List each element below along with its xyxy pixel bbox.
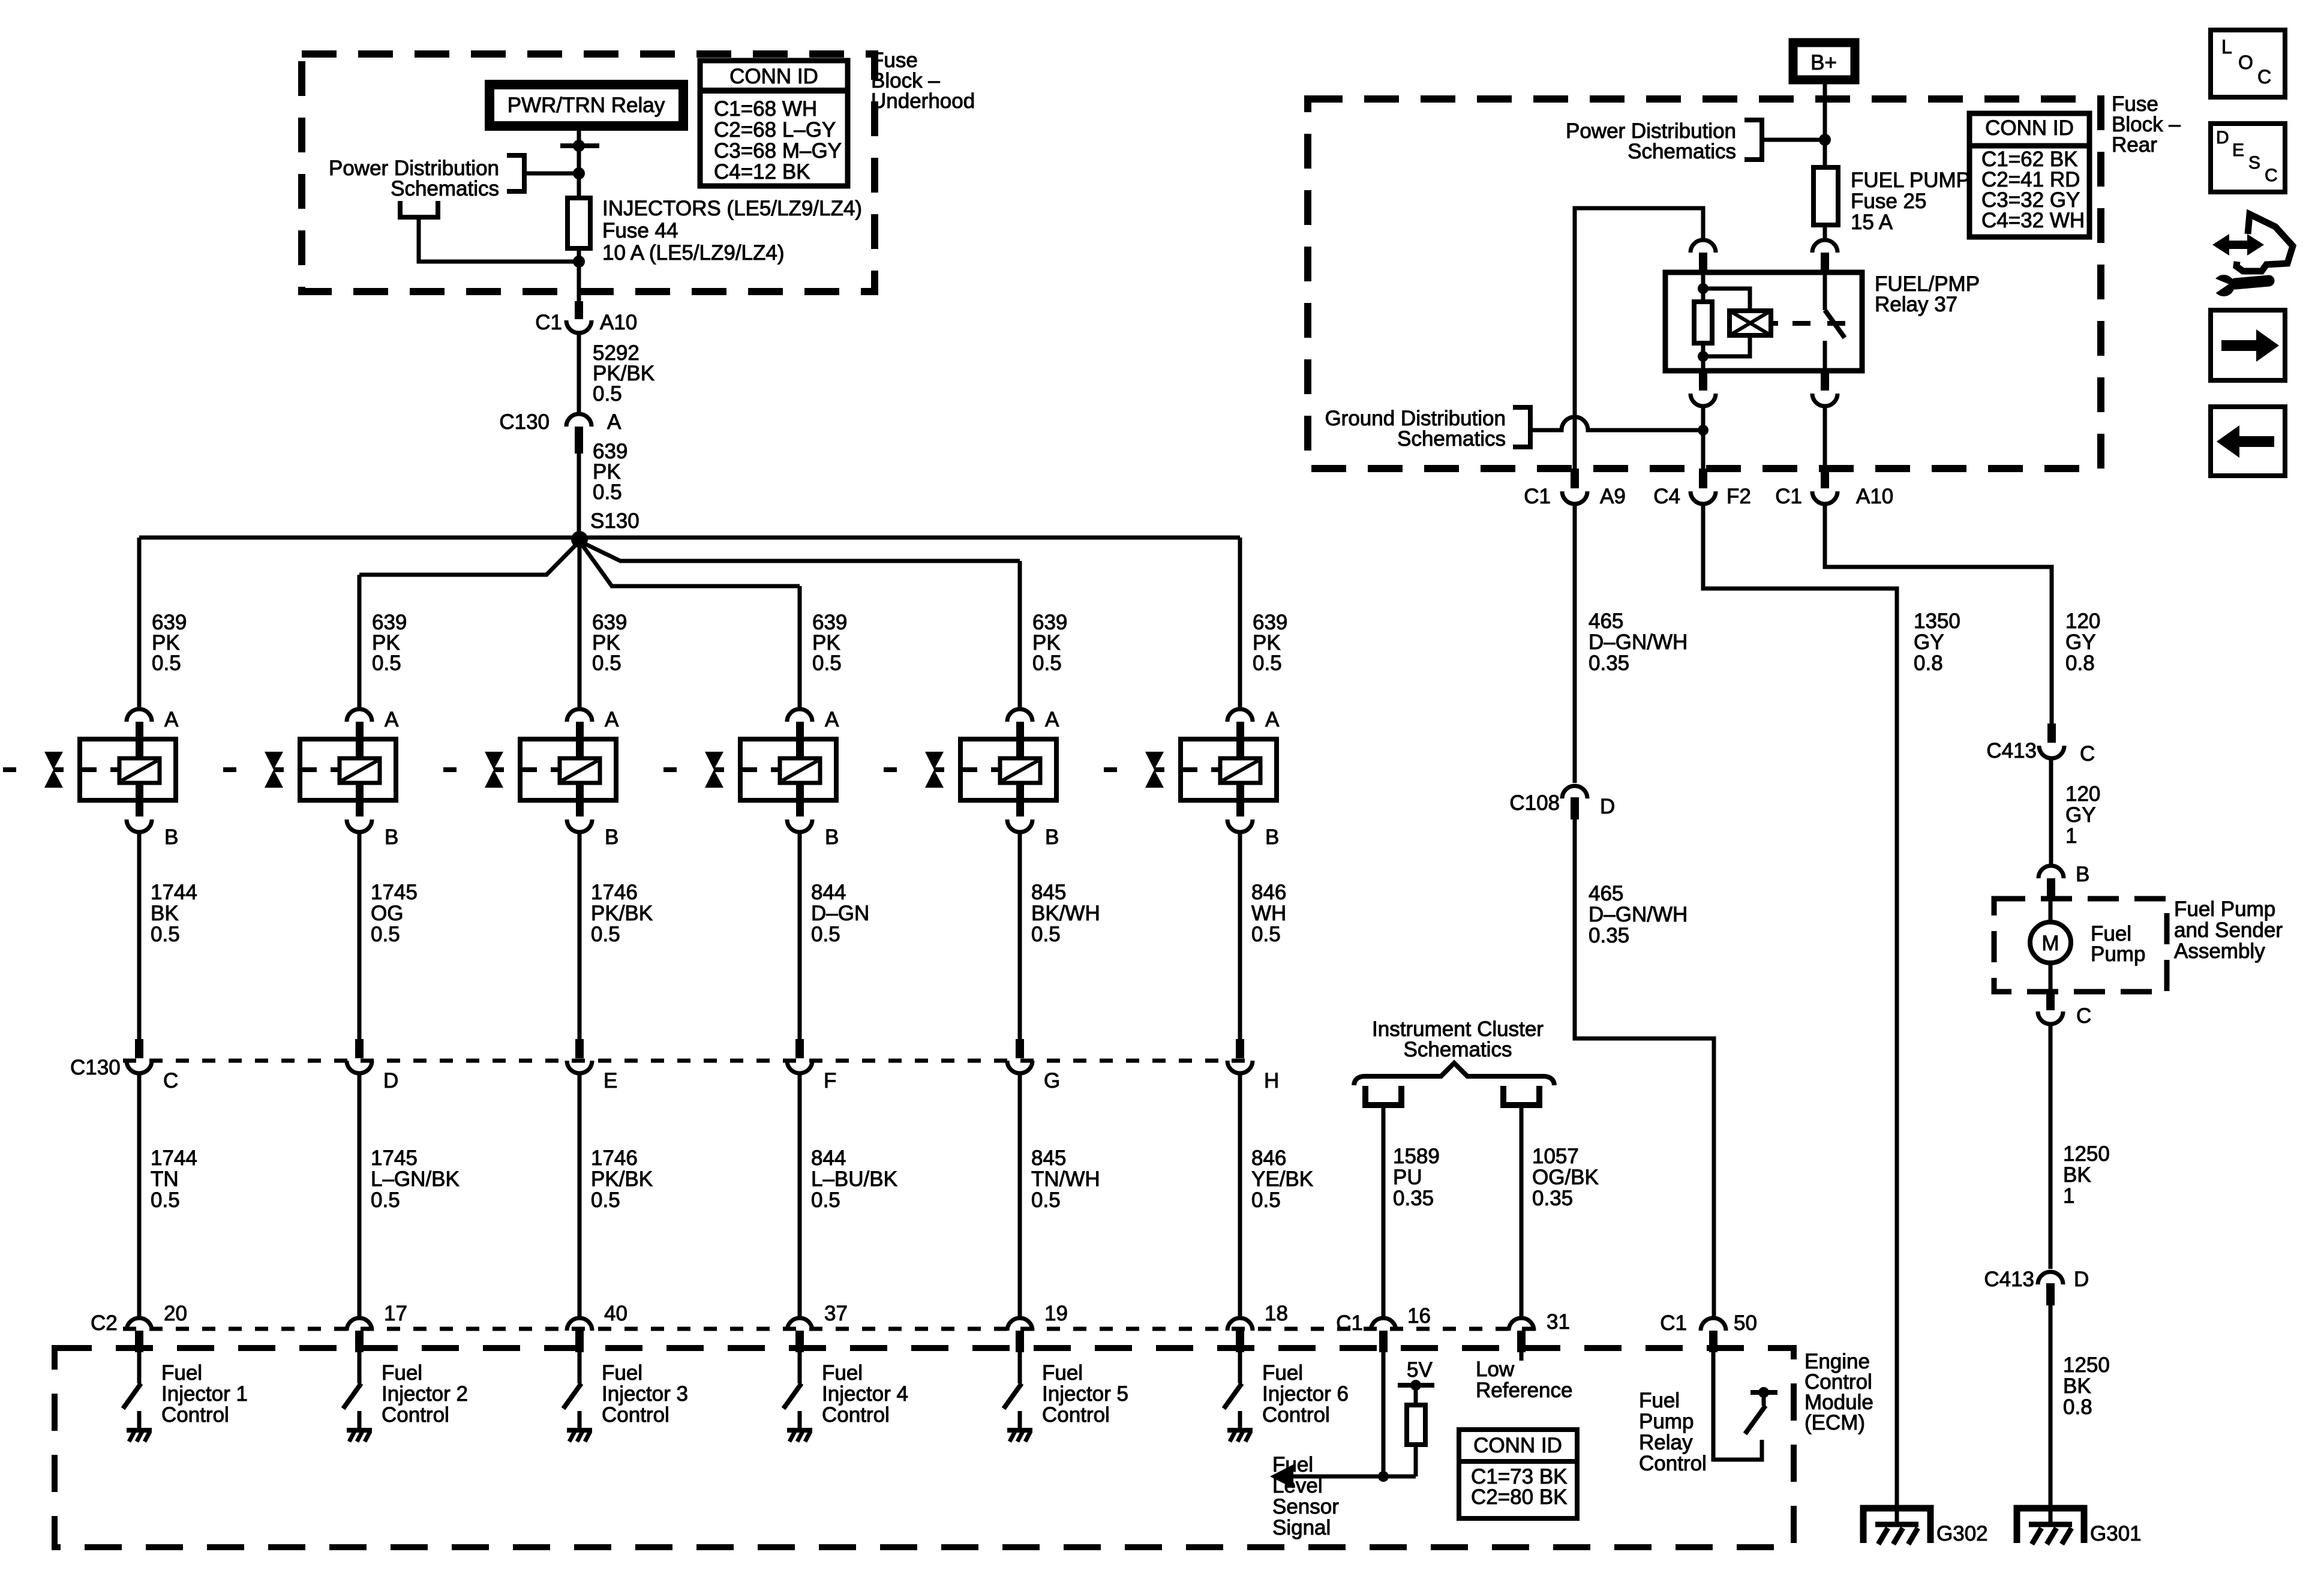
svg-text:A10: A10 — [600, 311, 637, 334]
resistor (relay coil suppression) — [1694, 302, 1712, 343]
svg-text:D: D — [383, 1069, 398, 1092]
connector pin B injector 3 — [567, 800, 592, 837]
wire injector 5 C130 to ECM connector — [1018, 1073, 1022, 1319]
fuel injector 6 box — [1181, 739, 1277, 800]
wire solenoid to box bottom injector 2 — [356, 783, 364, 800]
wire into ECM driver 2 — [358, 1352, 362, 1383]
icon arrow back — [2211, 407, 2285, 476]
junction dot relay coil bottom — [1698, 351, 1709, 362]
svg-text:C4: C4 — [1653, 485, 1680, 508]
wire fuse to connector C1 A10 — [577, 248, 581, 303]
icon vehicle with wrench — [2212, 214, 2293, 296]
wire solenoid to box bottom injector 3 — [576, 783, 584, 800]
wire relay coil to ground distribution node — [1701, 406, 1706, 469]
svg-text:EngineControlModule(ECM): EngineControlModule(ECM) — [1804, 1350, 1873, 1434]
svg-text:A: A — [605, 708, 619, 731]
wire fuel pump relay control — [1713, 1352, 1762, 1460]
wire injector 3 to C130 — [578, 836, 582, 1040]
connector pin B injector 1 — [127, 800, 152, 837]
wire injector 1 C130 to ECM connector — [137, 1073, 142, 1319]
connector line C2/C1 (dotted) — [123, 1327, 1537, 1331]
ground (ECM injector 3 driver) — [567, 1430, 592, 1442]
fuel injector 6 solenoid — [1220, 758, 1260, 783]
svg-text:C1=62 BKC2=41 RDC3=32 GYC4=32: C1=62 BKC2=41 RDC3=32 GYC4=32 WH — [1981, 148, 2085, 232]
wire 1589 PU — [1382, 1104, 1386, 1319]
wire switch to ground injector 2 — [358, 1411, 362, 1429]
wire 1250 BK 1 — [2049, 1024, 2053, 1269]
connector C130 row injector 2 — [347, 1039, 372, 1073]
wire injector 2 to C130 — [358, 836, 362, 1040]
dashed fuel line injector 3 — [443, 767, 560, 772]
svg-text:L: L — [2221, 36, 2232, 58]
svg-text:A10: A10 — [1856, 485, 1893, 508]
connector relay switch bottom — [1812, 371, 1837, 406]
relay switch contacts — [1823, 272, 1827, 371]
svg-text:C: C — [163, 1069, 178, 1092]
switch fuel injector 4 driver — [783, 1383, 801, 1409]
wire into ECM driver 3 — [578, 1352, 582, 1383]
svg-text:C: C — [2076, 1004, 2091, 1028]
svg-text:B: B — [164, 825, 178, 849]
wire fuel level sensor signal — [1278, 1475, 1416, 1479]
relay switch blade — [1825, 310, 1845, 338]
connector C130 row injector 5 — [1007, 1039, 1032, 1073]
ground (ECM injector 5 driver) — [1007, 1430, 1032, 1442]
svg-text:E: E — [603, 1069, 617, 1092]
dashed fuel line injector 1 — [3, 767, 119, 772]
svg-text:A9: A9 — [1600, 485, 1626, 508]
bracket power distribution (rear) — [1744, 120, 1762, 160]
svg-text:CONN ID: CONN ID — [729, 65, 818, 88]
connector pin B injector 2 — [347, 800, 372, 837]
connector line C130 (dotted) — [123, 1059, 1254, 1063]
dashed fuel line injector 2 — [223, 767, 340, 772]
nozzle valve symbol injector 3 — [485, 752, 504, 788]
connector pin 31 — [1509, 1318, 1534, 1352]
svg-text:D: D — [1600, 795, 1615, 818]
wire solenoid to box bottom injector 6 — [1236, 783, 1244, 800]
connector pin A injector 4 — [787, 709, 812, 758]
wire branch to injector 2 — [359, 541, 580, 575]
relay terminal bar — [560, 143, 599, 148]
relay coil (solenoid X box) — [1730, 311, 1771, 335]
fuse FUEL PUMP Fuse 25 — [1813, 167, 1838, 225]
nozzle valve symbol injector 5 — [925, 752, 944, 788]
ground G302 — [1863, 1508, 1930, 1544]
junction dot ground distribution — [1698, 425, 1709, 436]
svg-text:B: B — [605, 825, 618, 849]
svg-text:C1: C1 — [1336, 1311, 1363, 1335]
junction dot power tap (rear) — [1819, 134, 1831, 146]
svg-text:B: B — [2076, 863, 2089, 886]
svg-text:A: A — [607, 410, 621, 434]
FUEL/PMP Relay 37 box — [1665, 272, 1862, 371]
wire into ECM driver 1 — [137, 1352, 142, 1383]
wire pin 31 stub — [1520, 1352, 1524, 1361]
Engine Control Module dashed box — [55, 1348, 1794, 1547]
connector C130 A — [566, 414, 591, 454]
dashed fuel line injector 5 — [884, 767, 1000, 772]
connector ECM row pin 37 — [787, 1318, 812, 1352]
junction dot 5V — [1410, 1380, 1421, 1391]
connector pin B injector 5 — [1007, 800, 1032, 837]
junction dot relay coil top — [1698, 283, 1709, 294]
svg-text:CONN ID: CONN ID — [1473, 1434, 1562, 1457]
nozzle valve symbol injector 2 — [265, 752, 284, 788]
wire 639 PK to splice — [577, 454, 581, 538]
connector ECM row pin 40 — [567, 1318, 592, 1352]
wire feed injector 5 — [1018, 561, 1022, 709]
junction dot sensor node — [1378, 1471, 1389, 1482]
wire S130 bus horizontal — [139, 536, 1240, 540]
arrow fuel level sensor signal — [1270, 1464, 1293, 1488]
wire injector 6 to C130 — [1238, 836, 1242, 1040]
wire branch to injector 5 — [580, 541, 1020, 561]
CONN ID table (ECM) — [1459, 1430, 1577, 1518]
wire into ECM driver 6 — [1238, 1352, 1242, 1383]
junction dot below fuse — [573, 256, 585, 268]
wire 120 GY 1 — [2049, 758, 2053, 865]
svg-text:C1=73 BKC2=80 BK: C1=73 BKC2=80 BK — [1471, 1465, 1568, 1509]
dashed fuel line injector 4 — [663, 767, 780, 772]
wire 5V to resistor — [1414, 1385, 1418, 1405]
connector pin B injector 6 — [1227, 800, 1253, 837]
svg-text:E: E — [2232, 140, 2244, 160]
fuel injector 4 box — [740, 739, 836, 800]
5V supply bar — [1398, 1383, 1434, 1388]
svg-text:C1: C1 — [535, 311, 562, 334]
switch fuel injector 1 driver — [123, 1383, 141, 1409]
connector C413 D — [2038, 1272, 2063, 1305]
connector pin 16 — [1371, 1318, 1396, 1352]
fuel injector 1 box — [80, 739, 176, 800]
fuel injector 5 solenoid — [1000, 758, 1040, 783]
svg-text:G302: G302 — [1936, 1522, 1988, 1545]
connector C130 row injector 3 — [567, 1039, 592, 1073]
B+ battery feed box — [1793, 43, 1855, 80]
svg-text:A: A — [825, 708, 839, 731]
wire switch to ground injector 5 — [1018, 1411, 1022, 1429]
wire solenoid to box bottom injector 5 — [1016, 783, 1024, 800]
connector C1 A10 (rear) — [1812, 469, 1837, 504]
connector ECM row pin 19 — [1007, 1318, 1032, 1352]
wire 465 D-GN/WH lower — [1575, 819, 1714, 1319]
svg-text:C2: C2 — [91, 1311, 118, 1335]
svg-text:C413: C413 — [1984, 1268, 2034, 1291]
svg-text:5V: 5V — [1407, 1358, 1433, 1382]
nozzle valve symbol injector 4 — [705, 752, 724, 788]
connector C130 row injector 6 — [1227, 1039, 1253, 1073]
connector pump pin C — [2038, 992, 2063, 1024]
wire fuse 25 to relay switch — [1823, 225, 1827, 239]
wire relay switch to C1 A10 — [1823, 406, 1827, 469]
svg-text:G: G — [1044, 1069, 1060, 1092]
wire solenoid to box bottom injector 1 — [136, 783, 143, 800]
switch fuel pump relay driver — [1745, 1387, 1777, 1434]
bracket under schematics — [400, 201, 438, 217]
fuel injector 2 box — [300, 739, 396, 800]
wire feed injector 2 — [358, 575, 362, 709]
svg-text:18: 18 — [1265, 1302, 1288, 1325]
svg-text:16: 16 — [1407, 1304, 1431, 1328]
svg-text:B+: B+ — [1810, 51, 1837, 74]
connector C1 A9 — [1562, 469, 1587, 504]
connector pin A injector 6 — [1227, 709, 1253, 758]
svg-text:C130: C130 — [499, 410, 550, 434]
wire switch to ground injector 3 — [578, 1411, 582, 1429]
switch fuel injector 2 driver — [343, 1383, 361, 1409]
svg-text:B: B — [1265, 825, 1279, 849]
splice S130 junction dot — [571, 531, 588, 548]
svg-text:50: 50 — [1734, 1311, 1757, 1335]
svg-text:A: A — [1045, 708, 1059, 731]
fuel injector 4 solenoid — [780, 758, 820, 783]
ground (ECM injector 6 driver) — [1227, 1430, 1253, 1442]
connector relay coil top — [1691, 240, 1716, 272]
connector pin 50 — [1701, 1318, 1726, 1352]
svg-text:D: D — [2216, 128, 2229, 148]
relay actuator dashed link — [1771, 321, 1845, 326]
svg-text:C1: C1 — [1660, 1311, 1687, 1335]
wire injector 4 C130 to ECM connector — [798, 1073, 802, 1319]
connector C130 row injector 4 — [787, 1039, 812, 1073]
svg-text:B: B — [385, 825, 398, 849]
junction dot relay terminal — [573, 140, 585, 152]
wire 1057 OG/BK — [1520, 1104, 1524, 1319]
wire switch to ground injector 4 — [798, 1411, 802, 1429]
dashed fuel line injector 6 — [1104, 767, 1220, 772]
wire injector 4 to C130 — [798, 836, 802, 1040]
fuel injector 5 box — [960, 739, 1056, 800]
svg-text:A: A — [164, 708, 179, 731]
wire switch to ground injector 1 — [137, 1411, 142, 1429]
svg-text:H: H — [1264, 1069, 1279, 1092]
connector C108 D — [1562, 786, 1587, 819]
Fuel Pump and Sender Assembly dashed box — [1994, 899, 2167, 992]
wire B+ to fuse 25 — [1823, 80, 1827, 167]
svg-text:C: C — [2265, 166, 2278, 185]
PWR/TRN Relay box — [490, 85, 683, 126]
switch fuel injector 6 driver — [1224, 1383, 1242, 1409]
CONN ID table (rear) — [1969, 113, 2089, 237]
wire bracket to fuse output — [419, 217, 579, 262]
connector pin A injector 3 — [567, 709, 592, 758]
svg-text:S: S — [2248, 153, 2260, 173]
Fuse Block - Rear dashed box — [1308, 99, 2101, 469]
wire branch to injector 4 — [580, 541, 800, 586]
svg-text:F: F — [824, 1069, 836, 1092]
ground (ECM injector 4 driver) — [787, 1430, 812, 1442]
power distribution tap wire — [524, 172, 579, 176]
wire injector 3 C130 to ECM connector — [578, 1073, 582, 1319]
wire feed injector 6 — [1238, 538, 1242, 709]
wire ground distribution with hop — [1530, 417, 1703, 430]
fuel injector 3 solenoid — [560, 758, 600, 783]
icon LOC — [2211, 30, 2285, 97]
relay coil loop wires — [1703, 289, 1750, 356]
receptacle instrument cluster right — [1503, 1086, 1539, 1105]
svg-text:C1: C1 — [1524, 485, 1551, 508]
brace instrument cluster — [1354, 1063, 1554, 1085]
svg-text:C413: C413 — [1986, 739, 2037, 763]
wire feed injector 4 — [798, 586, 802, 709]
Fuse Block - Underhood dashed box — [302, 54, 875, 292]
icon DESC — [2211, 124, 2285, 192]
connector relay switch top — [1812, 240, 1837, 272]
ground G301 — [2017, 1508, 2084, 1544]
svg-text:B: B — [1045, 825, 1059, 849]
svg-text:40: 40 — [604, 1302, 627, 1325]
wire relay coil feed (from C1 A9 branch) — [1575, 208, 1703, 469]
wire into ECM driver 4 — [798, 1352, 802, 1383]
wire motor to pump box bottom — [2049, 963, 2053, 992]
svg-text:G301: G301 — [2090, 1522, 2142, 1545]
wire pump box top to motor — [2049, 899, 2053, 923]
svg-text:O: O — [2238, 52, 2253, 73]
connector C4 F2 — [1691, 469, 1716, 504]
connector ECM row pin 18 — [1227, 1318, 1253, 1352]
connector pump pin B — [2038, 866, 2064, 899]
svg-text:A: A — [1265, 708, 1280, 731]
wire PWR/TRN relay to fuse — [577, 126, 581, 198]
icon arrow next — [2211, 310, 2285, 380]
fuel pump motor M — [2030, 922, 2071, 963]
connector pin A injector 5 — [1007, 709, 1032, 758]
connector pin A injector 1 — [127, 709, 152, 758]
wire feed injector 3 — [578, 538, 582, 709]
bracket ground distribution — [1513, 407, 1530, 447]
nozzle valve symbol injector 6 — [1145, 752, 1164, 788]
wire injector 6 C130 to ECM connector — [1238, 1073, 1242, 1319]
svg-text:17: 17 — [384, 1302, 407, 1325]
nozzle valve symbol injector 1 — [44, 752, 64, 788]
switch fuel injector 5 driver — [1004, 1383, 1022, 1409]
svg-text:31: 31 — [1547, 1310, 1570, 1334]
svg-text:C: C — [2080, 742, 2095, 766]
svg-text:20: 20 — [164, 1302, 187, 1325]
fuel injector 3 box — [520, 739, 616, 800]
connector C130 row injector 1 — [127, 1039, 152, 1073]
connector ECM row pin 20 — [127, 1318, 152, 1352]
connector pin B injector 4 — [787, 800, 812, 837]
wire 5292 PK/BK — [577, 336, 581, 413]
svg-text:B: B — [825, 825, 839, 849]
svg-text:C1: C1 — [1775, 485, 1802, 508]
svg-text:D: D — [2074, 1268, 2089, 1291]
svg-text:A: A — [385, 708, 399, 731]
wire 465 D-GN/WH upper — [1573, 504, 1577, 783]
wire feed injector 1 — [137, 538, 142, 709]
svg-text:CONN ID: CONN ID — [1985, 116, 2074, 140]
svg-text:C: C — [2257, 66, 2271, 88]
wire 120 GY 0.8 — [1825, 504, 2052, 724]
switch fuel injector 3 driver — [563, 1383, 581, 1409]
wire resistor to node — [1414, 1445, 1418, 1476]
fuel injector 1 solenoid — [119, 758, 160, 783]
wire 1250 BK 0.8 — [2049, 1305, 2053, 1526]
wire power distribution tap (rear) — [1762, 138, 1825, 142]
CONN ID table (underhood) — [700, 61, 848, 186]
connector C1 A10 (underhood) — [566, 301, 591, 338]
svg-text:S130: S130 — [590, 509, 639, 533]
wire 1350 GY to G302 — [1703, 504, 1897, 1526]
wire injector 1 to C130 — [137, 836, 142, 1040]
connector relay coil bottom — [1691, 371, 1716, 406]
svg-text:C108: C108 — [1509, 791, 1560, 815]
svg-text:37: 37 — [824, 1302, 848, 1325]
connector C413 C — [2039, 724, 2064, 758]
connector pin A injector 2 — [347, 709, 372, 758]
ground (ECM injector 2 driver) — [347, 1430, 372, 1442]
wire pin 16 to sensor node — [1382, 1352, 1386, 1475]
wire into ECM driver 5 — [1018, 1352, 1022, 1383]
connector ECM row pin 17 — [347, 1318, 372, 1352]
resistor (fuel level pull-up) — [1407, 1405, 1425, 1445]
svg-text:M: M — [2041, 932, 2059, 955]
wire injector 5 to C130 — [1018, 836, 1022, 1040]
wire switch to ground injector 6 — [1238, 1411, 1242, 1429]
ground (ECM injector 1 driver) — [127, 1430, 152, 1442]
svg-text:19: 19 — [1044, 1302, 1068, 1325]
svg-text:C130: C130 — [70, 1056, 121, 1079]
fuse INJECTORS Fuse 44 — [568, 198, 590, 248]
fuel injector 2 solenoid — [340, 758, 380, 783]
svg-text:PWR/TRN Relay: PWR/TRN Relay — [508, 94, 665, 117]
wire injector 2 C130 to ECM connector — [358, 1073, 362, 1319]
wire solenoid to box bottom injector 4 — [796, 783, 804, 800]
svg-text:F2: F2 — [1727, 485, 1751, 508]
bracket power distribution (underhood) — [507, 155, 524, 191]
relay coil branch wire — [1701, 272, 1706, 302]
junction dot power distribution tap — [573, 167, 585, 179]
wire resistor bottom — [1701, 343, 1706, 371]
receptacle instrument cluster left — [1365, 1086, 1401, 1105]
